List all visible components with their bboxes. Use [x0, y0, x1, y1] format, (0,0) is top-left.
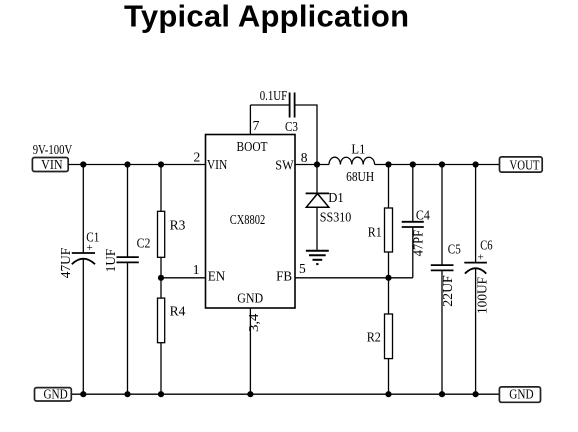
svg-text:R3: R3 — [170, 218, 186, 233]
wire R3 branch top — [160, 165, 162, 212]
svg-text:Typical Application: Typical Application — [124, 0, 409, 34]
svg-text:R4: R4 — [170, 304, 186, 319]
node junction EN divider — [158, 275, 164, 281]
node junction gnd C6 — [473, 391, 479, 397]
wire R3 to EN node — [160, 257, 162, 298]
capacitor C4 47PF — [402, 208, 430, 257]
wire D1 top — [316, 165, 318, 194]
svg-text:CX8802: CX8802 — [230, 213, 266, 228]
svg-text:9V-100V: 9V-100V — [33, 142, 73, 157]
svg-text:BOOT: BOOT — [237, 139, 269, 154]
node junction R3 top — [158, 161, 164, 167]
svg-text:1: 1 — [193, 262, 200, 277]
capacitor C3 0.1UF — [260, 88, 298, 134]
wire BOOT up — [249, 105, 251, 135]
svg-text:3,4: 3,4 — [246, 313, 261, 332]
capacitor C2 1UF — [103, 236, 150, 273]
resistor R2 — [367, 314, 393, 359]
svg-text:100UF: 100UF — [475, 277, 490, 314]
wire R2 bottom — [388, 359, 390, 395]
wire C5 top — [441, 165, 443, 266]
wire C1 branch bottom — [82, 259, 84, 394]
svg-text:C6: C6 — [480, 238, 493, 253]
node junction R1 top — [385, 161, 391, 167]
svg-text:GND: GND — [237, 290, 263, 305]
svg-text:L1: L1 — [351, 141, 365, 156]
node junction gnd C5 — [439, 391, 445, 397]
wire C6 top — [475, 165, 477, 263]
wire FB — [295, 277, 413, 279]
node junction gnd C2 — [124, 391, 130, 397]
svg-text:8: 8 — [301, 150, 308, 165]
wire C5 bottom — [441, 270, 443, 394]
node junction gnd R4 — [158, 391, 164, 397]
svg-text:68UH: 68UH — [346, 169, 374, 184]
svg-text:C3: C3 — [285, 119, 298, 134]
svg-text:SW: SW — [275, 158, 294, 173]
svg-text:5: 5 — [299, 261, 306, 276]
svg-text:EN: EN — [208, 269, 226, 284]
node junction C4 top — [410, 161, 416, 167]
port VIN — [32, 157, 68, 172]
wire BOOT to C3 — [250, 104, 289, 106]
node junction FB divider — [385, 275, 391, 281]
wire VOUT rail — [375, 164, 500, 166]
svg-text:C4: C4 — [416, 208, 430, 223]
wire R1 top — [388, 165, 390, 209]
capacitor C6 100UF polarized — [464, 238, 492, 315]
capacitor C1 47UF polarized — [58, 230, 99, 279]
wire C1 branch top — [82, 165, 84, 254]
svg-text:2: 2 — [194, 150, 201, 165]
node junction SW — [314, 161, 320, 167]
svg-text:C5: C5 — [448, 242, 461, 257]
svg-text:+: + — [478, 251, 484, 263]
svg-text:VIN: VIN — [207, 157, 228, 172]
wire ground rail — [71, 393, 501, 395]
ground — [306, 251, 329, 264]
port GND right — [499, 387, 540, 403]
wire R2 top — [388, 278, 390, 314]
wire SW rail — [295, 164, 329, 166]
svg-text:VOUT: VOUT — [510, 158, 541, 173]
wire C6 bottom — [475, 269, 477, 395]
resistor R1 — [368, 208, 393, 252]
wire R4 bottom — [160, 343, 162, 395]
svg-text:0.1UF: 0.1UF — [260, 88, 288, 103]
svg-text:+: + — [87, 242, 93, 254]
wire C4 top — [412, 165, 414, 222]
node junction C1 top — [80, 161, 86, 167]
wire C2 branch bottom — [127, 262, 129, 394]
svg-text:VIN: VIN — [41, 157, 63, 172]
wire C2 branch top — [127, 165, 129, 258]
port VOUT — [500, 157, 543, 173]
svg-text:R1: R1 — [368, 225, 382, 240]
op-amp U1 CX8802 — [206, 135, 296, 309]
svg-text:FB: FB — [276, 269, 292, 284]
svg-text:GND: GND — [509, 387, 534, 402]
wire C4 bottom to FB — [412, 227, 414, 278]
svg-text:47UF: 47UF — [58, 247, 73, 278]
wire IC GND pin down — [249, 308, 251, 394]
svg-text:1UF: 1UF — [103, 248, 118, 272]
svg-text:7: 7 — [253, 118, 260, 133]
wire VIN rail — [68, 164, 205, 166]
svg-text:D1: D1 — [328, 190, 344, 205]
node junction C5 top — [439, 161, 445, 167]
svg-text:R2: R2 — [367, 329, 381, 344]
wire EN — [161, 277, 206, 279]
wire D1 to ground — [316, 207, 318, 251]
svg-text:C2: C2 — [137, 236, 151, 251]
node junction C6 top — [473, 161, 479, 167]
inductor L1 68UH — [329, 141, 375, 184]
resistor R3 — [158, 211, 186, 257]
wire R1 bottom — [388, 252, 390, 278]
svg-text:GND: GND — [43, 387, 68, 402]
resistor R4 — [158, 298, 186, 343]
node junction gnd R2 — [385, 391, 391, 397]
svg-text:SS310: SS310 — [320, 210, 352, 225]
wire C3 to SW node — [295, 105, 317, 165]
port GND left — [35, 387, 72, 402]
capacitor C5 22UF — [431, 242, 461, 307]
diode D1 SS310 — [306, 190, 352, 224]
node junction C2 top — [124, 161, 130, 167]
node junction gnd C1 — [80, 391, 86, 397]
node junction gnd IC — [247, 391, 253, 397]
